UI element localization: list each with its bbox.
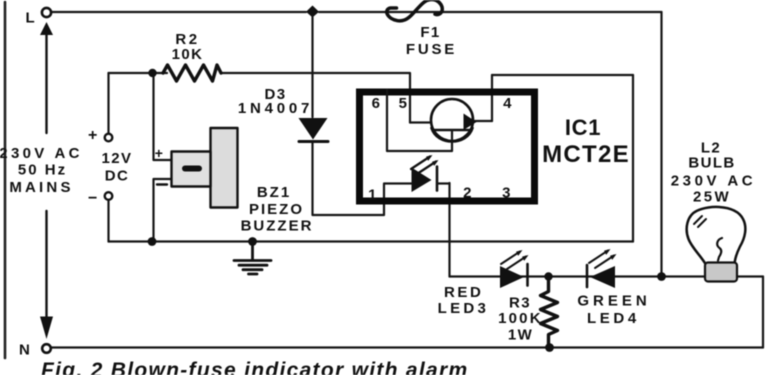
- wire buzzer minus branch: [154, 179, 172, 242]
- svg-text:GREEN: GREEN: [577, 293, 650, 310]
- buzzer minus tick: [157, 183, 167, 185]
- lamp base: [705, 263, 737, 282]
- terminal L: [42, 8, 51, 17]
- wire emitter internal: [473, 120, 493, 122]
- ground symbol: [234, 243, 271, 274]
- LED4 emission arrows: [589, 251, 614, 269]
- svg-text:BUZZER: BUZZER: [241, 218, 314, 235]
- svg-text:4: 4: [503, 95, 513, 112]
- wire ground rail: [109, 240, 634, 242]
- wire collector internal: [410, 121, 432, 123]
- node supply junction: [148, 69, 156, 77]
- LED inside IC1: [412, 168, 432, 193]
- label R3 100K 1W: [498, 295, 543, 344]
- wire LED cathode internal: [437, 182, 450, 184]
- svg-text:IC1: IC1: [565, 115, 601, 140]
- svg-text:12V: 12V: [102, 150, 133, 167]
- svg-text:25W: 25W: [693, 189, 731, 206]
- buzzer BZ1 piezo disc: [211, 128, 238, 208]
- svg-text:230V AC: 230V AC: [671, 173, 757, 190]
- svg-text:MAINS: MAINS: [9, 179, 73, 196]
- svg-text:6: 6: [372, 95, 382, 112]
- wire junction to fuse to corner: [319, 11, 662, 13]
- wire R2 to opto pin 5: [221, 73, 410, 123]
- svg-text:10K: 10K: [172, 46, 204, 63]
- transistor base chord: [434, 129, 470, 131]
- svg-text:BULB: BULB: [688, 155, 735, 172]
- svg-text:L: L: [26, 10, 37, 27]
- wire base to pin 6: [387, 90, 452, 151]
- LED LED3 red: [500, 266, 524, 288]
- svg-text:2: 2: [463, 185, 473, 202]
- svg-text:5: 5: [399, 95, 409, 112]
- svg-text:RED: RED: [444, 284, 483, 301]
- diode D3: [299, 118, 328, 140]
- svg-text:F1: F1: [420, 24, 440, 41]
- svg-text:−: −: [88, 190, 99, 207]
- node ground junction: [248, 237, 257, 246]
- svg-text:1N4007: 1N4007: [238, 100, 313, 117]
- fuse F1: [387, 0, 443, 21]
- svg-text:PIEZO: PIEZO: [249, 201, 304, 218]
- wire D3 cathode to opto pin 1: [313, 142, 385, 215]
- node LED3/R3 junction: [544, 272, 552, 280]
- emitter arrowhead: [464, 114, 477, 131]
- label F1 FUSE: [406, 24, 457, 58]
- wire emitter return right side: [632, 75, 634, 242]
- svg-text:3: 3: [502, 185, 512, 202]
- svg-text:N: N: [19, 342, 31, 359]
- label R2 10K: [172, 31, 204, 63]
- buzzer BZ1 terminal dash: [182, 166, 202, 172]
- svg-text:+: +: [88, 127, 99, 144]
- svg-text:FUSE: FUSE: [406, 41, 457, 58]
- terminal 12V minus: [105, 192, 113, 200]
- wire pin 2 cathode drop: [448, 183, 450, 277]
- buzzer BZ1 body: [172, 152, 211, 187]
- svg-text:230V AC: 230V AC: [0, 145, 83, 162]
- wire fuse output down to LED row: [660, 12, 662, 277]
- label RED LED3: [438, 284, 490, 317]
- wire LED row: [450, 275, 764, 277]
- svg-text:DC: DC: [105, 168, 129, 185]
- wire L terminal to fuse junction: [52, 11, 307, 13]
- wire 12V minus terminal drop: [107, 200, 109, 242]
- svg-text:LED4: LED4: [587, 310, 640, 327]
- svg-text:+: +: [155, 145, 165, 161]
- LED emission arrows internal: [411, 157, 436, 175]
- LED3 emission arrows: [501, 252, 526, 270]
- resistor R2: [163, 65, 221, 81]
- terminal N: [42, 344, 51, 353]
- svg-text:BZ1: BZ1: [257, 184, 291, 201]
- label 230V AC 50Hz MAINS: [0, 145, 83, 196]
- wire supply rail to R2: [109, 72, 168, 74]
- svg-text:50 Hz: 50 Hz: [18, 162, 67, 179]
- lamp L2 bulb glass: [687, 207, 746, 264]
- wire right side drop: [762, 277, 764, 348]
- wire D3 branch vertical: [311, 17, 313, 117]
- svg-text:1W: 1W: [508, 326, 533, 343]
- svg-text:Fig. 2 Blown-fuse indicator wi: Fig. 2 Blown-fuse indicator with alarm: [41, 359, 468, 375]
- lamp filament squiggle: [717, 238, 722, 261]
- svg-text:R3: R3: [509, 295, 531, 312]
- wire emitter return top: [492, 74, 633, 76]
- label 12V DC: [102, 150, 133, 185]
- node R3 bottom junction: [545, 343, 554, 352]
- lamp shine mark: [694, 216, 706, 227]
- LED LED4 green: [586, 265, 589, 287]
- svg-text:1: 1: [368, 187, 378, 204]
- wire bottom neutral rail: [52, 346, 764, 348]
- op-amp? no: optocoupler IC1 package: [360, 92, 535, 201]
- phototransistor Q of IC1: [431, 99, 473, 141]
- node bulb junction: [657, 272, 666, 281]
- label L2 BULB 230V AC 25W: [671, 140, 757, 206]
- wire pin 4 riser: [491, 75, 493, 121]
- svg-text:MCT2E: MCT2E: [542, 141, 630, 168]
- mains voltage arrow down: [45, 211, 47, 318]
- svg-text:LED3: LED3: [438, 300, 490, 317]
- label GREEN LED4: [577, 293, 650, 328]
- wire LED anode internal: [384, 182, 412, 184]
- mains voltage arrow up: [45, 34, 47, 133]
- node buzzer minus junction: [148, 237, 157, 246]
- label BZ1 PIEZO BUZZER: [241, 184, 314, 235]
- wire 12V plus terminal riser: [107, 73, 109, 134]
- svg-text:100K: 100K: [498, 310, 543, 327]
- resistor R3: [541, 279, 558, 348]
- label D3 1N4007: [238, 86, 313, 117]
- node fuse/D3 branch junction: [306, 6, 319, 18]
- label IC1 MCT2E: [542, 115, 630, 168]
- terminal 12V plus: [105, 134, 113, 142]
- wire buzzer plus branch: [154, 73, 172, 160]
